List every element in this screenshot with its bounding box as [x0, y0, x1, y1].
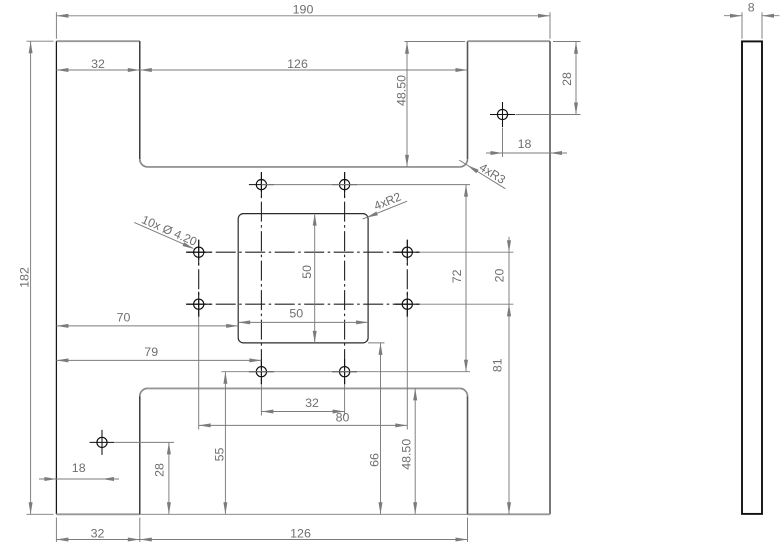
hole in bottom left tab — [97, 437, 107, 447]
svg-text:28: 28 — [152, 463, 166, 477]
hole mid-left upper — [194, 247, 204, 257]
part front view outline - top tab right edge — [139, 41, 141, 159]
hole mid-right upper — [402, 247, 412, 257]
top right tab left edge — [467, 41, 469, 159]
dimension 48.50 bottom notch depth — [414, 388, 416, 514]
svg-text:70: 70 — [117, 310, 131, 324]
extension line bottom-left corner down (dim 32) — [55, 518, 57, 542]
dimension 32 bottom — [56, 539, 139, 541]
dimension 50 square vertical — [314, 214, 316, 343]
extension line square bottom right (dim 66) — [368, 342, 384, 344]
dimension 80 mid holes — [199, 424, 408, 426]
top right tab top edge — [468, 40, 551, 42]
svg-text:48.50: 48.50 — [394, 75, 408, 106]
dimension 79 — [56, 359, 261, 361]
hole bottom-right of square — [340, 367, 350, 377]
bottom notch fillet left R3 — [140, 388, 148, 396]
side view plate outline — [742, 41, 762, 514]
hole top-right of square — [340, 180, 350, 190]
leader 4xR3 to top notch corner — [459, 160, 505, 189]
centerline hole column x=199 — [198, 240, 200, 317]
svg-text:50: 50 — [300, 265, 314, 279]
extension line left at bottom edge (dim 182) — [27, 513, 54, 515]
extension line from tab hole right (dim 28) — [516, 114, 581, 116]
extension line side view right up (dim 8) — [761, 12, 763, 39]
dimension 72 hole rows — [465, 185, 467, 372]
centerline hole column x=345 — [344, 172, 346, 384]
dimension 81 — [508, 304, 510, 514]
dimension 182 left — [30, 41, 32, 514]
dimension 28 bottom left tab hole — [168, 442, 170, 514]
svg-text:32: 32 — [91, 57, 105, 71]
leader 10x D4.20 to mid-left upper hole — [134, 222, 193, 248]
dimension 126 bottom — [140, 539, 468, 541]
svg-text:48.50: 48.50 — [400, 439, 414, 470]
dimension 8 side view thickness — [724, 15, 742, 17]
top notch fillet right R3 — [460, 159, 468, 167]
extension line x=140 down (dims 32/126) — [139, 518, 141, 542]
svg-text:20: 20 — [493, 269, 507, 283]
dimension 50 square horizontal — [238, 321, 368, 323]
dimension 18 top right tab hole — [486, 152, 567, 154]
dimension 126 top — [140, 69, 468, 71]
hole top-left of square — [256, 180, 266, 190]
dimension 32 bottom holes — [261, 411, 344, 413]
hole mid-right lower — [402, 299, 412, 309]
part front view outline - left edge — [55, 41, 57, 514]
svg-text:8: 8 — [748, 0, 755, 14]
dimension 190 top — [56, 15, 550, 17]
dimension 70 — [56, 325, 238, 327]
svg-text:190: 190 — [293, 2, 314, 16]
dimension 55 — [224, 372, 226, 515]
extension line below tab hole (dim 18) — [502, 128, 504, 158]
extension line side view left up (dim 8) — [741, 12, 743, 39]
hole mid-left lower — [194, 299, 204, 309]
svg-text:126: 126 — [290, 526, 311, 540]
dimension 48.50 top notch depth — [406, 42, 408, 167]
bottom notch top edge — [148, 387, 460, 389]
extension line x=467 down (dim 126) — [467, 518, 469, 542]
extension line left at top edge (dim 182) — [27, 40, 54, 42]
extension line column x=199 below (dim 80) — [198, 317, 200, 430]
extension line column x=407 below (dim 80) — [406, 317, 408, 430]
svg-text:80: 80 — [336, 410, 350, 424]
extension line row y=252 right (dim 20) — [420, 251, 514, 253]
svg-text:50: 50 — [289, 307, 303, 321]
top notch bottom edge — [148, 166, 460, 168]
extension line row y=304 right (dims 20/81) — [420, 303, 514, 305]
svg-text:66: 66 — [367, 453, 381, 467]
extension line from BL tab hole right (dim 28) — [115, 441, 174, 443]
centerline hole row y=252 — [186, 251, 420, 253]
svg-text:18: 18 — [518, 137, 532, 151]
bottom right tab bottom edge — [468, 513, 551, 515]
svg-text:18: 18 — [72, 461, 86, 475]
bottom left tab right edge — [139, 396, 141, 514]
part front view outline - bottom edge left tab — [56, 513, 139, 515]
top notch fillet left R3 — [140, 159, 148, 167]
centerline hole column x=261 — [260, 172, 262, 384]
dimension 20 mid hole rows — [508, 237, 510, 320]
square cutout 50x50 4xR2 — [238, 214, 368, 343]
svg-text:32: 32 — [91, 526, 105, 540]
part right edge — [549, 41, 551, 514]
part front view outline - top edge — [56, 40, 139, 42]
hole bottom-left of square — [256, 367, 266, 377]
dimension 28 top right tab hole — [575, 42, 577, 115]
dimension 18 bottom left tab hole — [39, 478, 119, 480]
svg-text:55: 55 — [212, 448, 226, 462]
centerline hole column x=407 — [406, 240, 408, 317]
svg-text:81: 81 — [491, 358, 505, 372]
extension line hole row y=372 (dims 55/72) — [222, 371, 471, 373]
svg-text:182: 182 — [18, 267, 32, 288]
extension line top-right corner up (dim 190) — [549, 12, 551, 39]
extension line top-left corner up (dim 190) — [55, 12, 57, 39]
svg-text:32: 32 — [305, 396, 319, 410]
dimension 66 — [380, 343, 382, 514]
leader 4xR2 to square corner — [363, 201, 408, 219]
extension line bottom gap (bottom edge datum) — [140, 513, 468, 515]
extension line top notch mouth (dim 48.50 top) — [405, 41, 466, 43]
centerline hole row y=304 — [186, 303, 420, 305]
hole in top right tab — [497, 109, 507, 119]
svg-text:126: 126 — [287, 57, 308, 71]
extension line top-right corner right (dim 28) — [553, 41, 581, 43]
bottom right tab left edge — [467, 396, 469, 514]
bottom notch fillet right R3 — [460, 388, 468, 396]
extension line hole row y=185 (dim 72) — [261, 184, 470, 186]
extension line column x=345 below (dim 32) — [344, 384, 346, 415]
dimension 32 top — [56, 69, 139, 71]
svg-text:72: 72 — [450, 269, 464, 283]
svg-text:79: 79 — [144, 345, 158, 359]
svg-text:28: 28 — [560, 72, 574, 86]
extension line column x=261 below (dim 32) — [260, 384, 262, 415]
